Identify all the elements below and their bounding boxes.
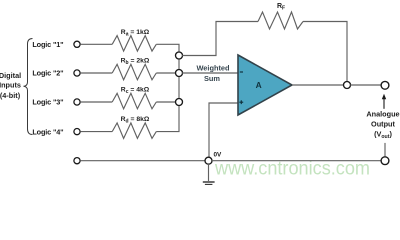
svg-text:Weighted: Weighted [196,64,230,73]
junction output node [344,82,351,89]
svg-text:Sum: Sum [204,74,220,83]
svg-text:(4-bit): (4-bit) [0,91,21,100]
bus segment node1 to node2 [178,59,180,70]
wire RF to output node [303,22,347,82]
wire Rc to bus [156,101,176,103]
wire Rd to bus [156,105,179,132]
wire node1 to feedback riser [182,22,258,56]
wire op-amp non-inverting input to 0V [209,103,238,158]
resistor Rd [112,123,156,138]
input terminal 2 [74,70,80,76]
wire 0V rail right [212,160,381,162]
resistor RF [258,12,303,29]
svg-text:Digital: Digital [0,71,21,80]
svg-text:Inputs: Inputs [0,81,21,90]
wire terminal2 to Rb [80,72,112,74]
resistor Rc [112,93,156,109]
svg-text:Logic "4": Logic "4" [32,127,63,136]
ground [203,181,215,183]
junction 0V node [205,157,212,164]
wire 0V node to ground [208,164,210,181]
svg-text:Logic "1": Logic "1" [32,40,63,49]
input terminal 1 [74,41,80,47]
resistor Rb [112,64,156,80]
junction node 3 [176,99,183,106]
svg-text:Output: Output [371,120,395,129]
wire Rb to bus [156,72,176,74]
svg-text:0V: 0V [214,152,223,159]
arrow to output terminal [383,99,385,109]
output terminal [381,81,389,89]
svg-text:A: A [256,80,262,90]
wire terminal1 to Ra [80,43,112,45]
wire to output terminal [350,84,381,86]
svg-text:Logic "3": Logic "3" [32,98,63,107]
0V rail right terminal [381,157,389,165]
wire op-amp output [292,84,344,86]
junction node 1 (feedback tap) [176,52,183,59]
input terminal 3 [74,99,80,105]
input terminal 4 [74,129,80,135]
junction node 2 (summing point) [176,70,183,77]
stub wire output terminal column to 0V rail terminal [384,143,386,156]
resistor Ra [112,36,156,52]
op-amp A [238,55,292,115]
brace for digital inputs [24,39,33,135]
wire terminal3 to Rc [80,101,112,103]
svg-text:Analogue: Analogue [366,110,399,119]
wire terminal4 to Rd [80,131,112,133]
0V rail left terminal [74,158,80,164]
svg-text:Logic "2": Logic "2" [32,69,63,78]
bus segment node2 to node3 [178,77,180,99]
wire node2 to op-amp inverting input [182,72,238,74]
wire Ra to bus [156,44,179,52]
wire 0V rail left [80,160,205,162]
